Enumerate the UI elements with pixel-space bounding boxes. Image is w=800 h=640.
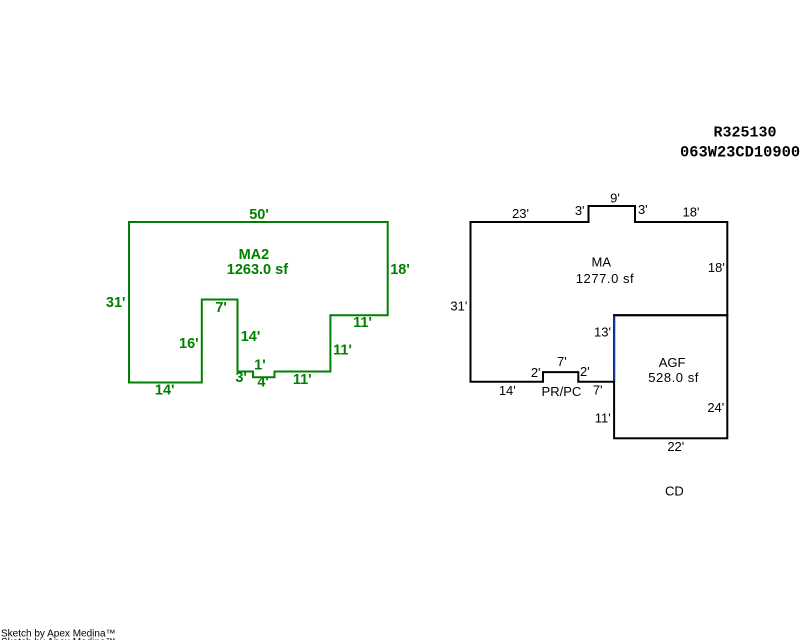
svg-text:31': 31' (106, 295, 126, 311)
svg-text:2': 2' (580, 364, 590, 379)
svg-text:AGF: AGF (659, 355, 686, 370)
svg-text:50': 50' (249, 207, 269, 223)
svg-text:24': 24' (707, 400, 724, 415)
svg-text:13': 13' (594, 325, 611, 340)
svg-text:MA: MA (592, 255, 612, 270)
svg-text:18': 18' (390, 262, 410, 278)
svg-text:4': 4' (257, 375, 269, 391)
svg-text:R325130: R325130 (713, 125, 776, 142)
svg-text:11': 11' (353, 315, 372, 331)
svg-text:3': 3' (638, 202, 648, 217)
svg-text:14': 14' (241, 329, 261, 345)
svg-text:11': 11' (293, 372, 312, 388)
svg-text:16': 16' (179, 336, 199, 352)
svg-text:18': 18' (683, 204, 700, 219)
svg-text:3': 3' (575, 203, 585, 218)
svg-text:7': 7' (215, 300, 227, 316)
svg-text:7': 7' (593, 382, 603, 397)
svg-text:23': 23' (512, 206, 529, 221)
svg-text:31': 31' (450, 299, 467, 314)
svg-text:14': 14' (155, 382, 175, 398)
svg-text:CD: CD (665, 484, 684, 499)
svg-text:PR/PC: PR/PC (542, 384, 582, 399)
svg-text:1277.0 sf: 1277.0 sf (576, 271, 634, 286)
svg-text:7': 7' (557, 354, 567, 369)
svg-text:14': 14' (499, 383, 516, 398)
svg-text:9': 9' (610, 190, 620, 205)
svg-text:3': 3' (235, 370, 247, 386)
svg-text:2': 2' (531, 365, 541, 380)
svg-text:MA2: MA2 (239, 247, 270, 263)
svg-text:063W23CD10900: 063W23CD10900 (680, 143, 800, 161)
svg-text:528.0 sf: 528.0 sf (648, 370, 699, 385)
svg-text:11': 11' (333, 343, 352, 359)
svg-text:11': 11' (595, 410, 611, 425)
svg-text:1': 1' (254, 358, 266, 374)
svg-text:1263.0 sf: 1263.0 sf (227, 262, 288, 278)
svg-text:22': 22' (667, 439, 684, 454)
svg-text:18': 18' (708, 260, 725, 275)
